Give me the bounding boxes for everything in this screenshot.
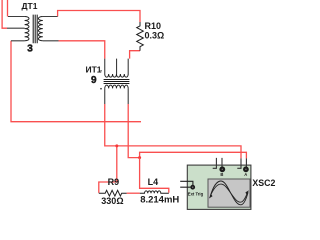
svg-text:B: B xyxy=(220,172,223,177)
wire: DT1 top-right pin up to R10 top xyxy=(58,11,140,23)
scope trace arrow right xyxy=(245,190,249,195)
junction node at jog xyxy=(138,156,141,159)
scope trace A xyxy=(210,181,248,205)
svg-text:Ext Trig: Ext Trig xyxy=(188,192,204,197)
DT1 pin leads right xyxy=(43,17,59,41)
wire: IT1 bottom-left pin down, right to scope A+ xyxy=(105,104,241,158)
wire: left net to DT1 center tap xyxy=(2,0,7,28)
IT1 primary winding (top) xyxy=(105,74,128,77)
junction node at R9 branch xyxy=(115,144,118,147)
wire: R9 right pin to L4 left pin xyxy=(127,192,140,194)
svg-text:L4: L4 xyxy=(148,177,159,187)
scope terminal A pins xyxy=(237,158,246,168)
svg-text:8.214mH: 8.214mH xyxy=(140,195,179,206)
IT1 phase mark top xyxy=(100,70,102,72)
svg-text:ИТ1: ИТ1 xyxy=(86,65,102,75)
transformer IT1 xyxy=(105,59,128,104)
IT1 phase dot bottom xyxy=(100,88,102,90)
transformer DT1 xyxy=(7,17,59,41)
scope ext trig circle xyxy=(190,185,195,190)
wire: DT1 bottom-left pin down and across bottom xyxy=(11,41,141,122)
resistor R10 xyxy=(137,22,144,51)
scope terminal A circle xyxy=(243,166,249,172)
resistor R9 xyxy=(99,190,127,196)
oscilloscope screen xyxy=(208,179,250,207)
wire: junction down and right to L4 right pin xyxy=(140,158,169,193)
IT1 pin leads bottom xyxy=(105,88,128,104)
IT1 pin leads top xyxy=(105,59,128,74)
svg-text:9: 9 xyxy=(91,75,97,86)
DT1 pin leads left xyxy=(7,17,25,41)
svg-text:3: 3 xyxy=(27,44,33,55)
wire: left net to DT1 pin1 (top-left) xyxy=(7,0,9,17)
svg-text:0.3Ω: 0.3Ω xyxy=(145,30,165,40)
svg-text:R9: R9 xyxy=(108,177,120,187)
scope ext trig pins xyxy=(180,181,193,187)
IT1 secondary winding (bottom) xyxy=(105,85,128,88)
DT1 secondary winding (right) xyxy=(38,17,42,41)
IT1 core xyxy=(104,80,130,84)
scope terminal B pins xyxy=(213,158,222,168)
oscilloscope XSC2 body xyxy=(187,165,251,209)
wire: jog up and right to scope A- xyxy=(140,152,247,158)
svg-text:ДТ1: ДТ1 xyxy=(22,1,38,11)
DT1 core xyxy=(33,15,37,44)
wire: DT1 bottom-right pin to IT1 top-left pin xyxy=(59,41,105,59)
inductor L4 xyxy=(140,191,169,193)
scope terminal B circle xyxy=(219,166,225,172)
scope trace B xyxy=(210,184,247,202)
DT1 primary winding (left) xyxy=(25,17,29,41)
wire: R10 bottom to IT1 top-right pin xyxy=(130,51,140,59)
svg-text:330Ω: 330Ω xyxy=(101,196,123,206)
wire: IT1 bottom-right pin down then right xyxy=(128,104,139,158)
scope trace arrow left xyxy=(209,194,213,199)
svg-text:A: A xyxy=(244,172,247,177)
svg-text:R10: R10 xyxy=(145,21,162,31)
svg-text:XSC2: XSC2 xyxy=(252,178,275,188)
wire: branch down to R9 left xyxy=(99,146,117,193)
